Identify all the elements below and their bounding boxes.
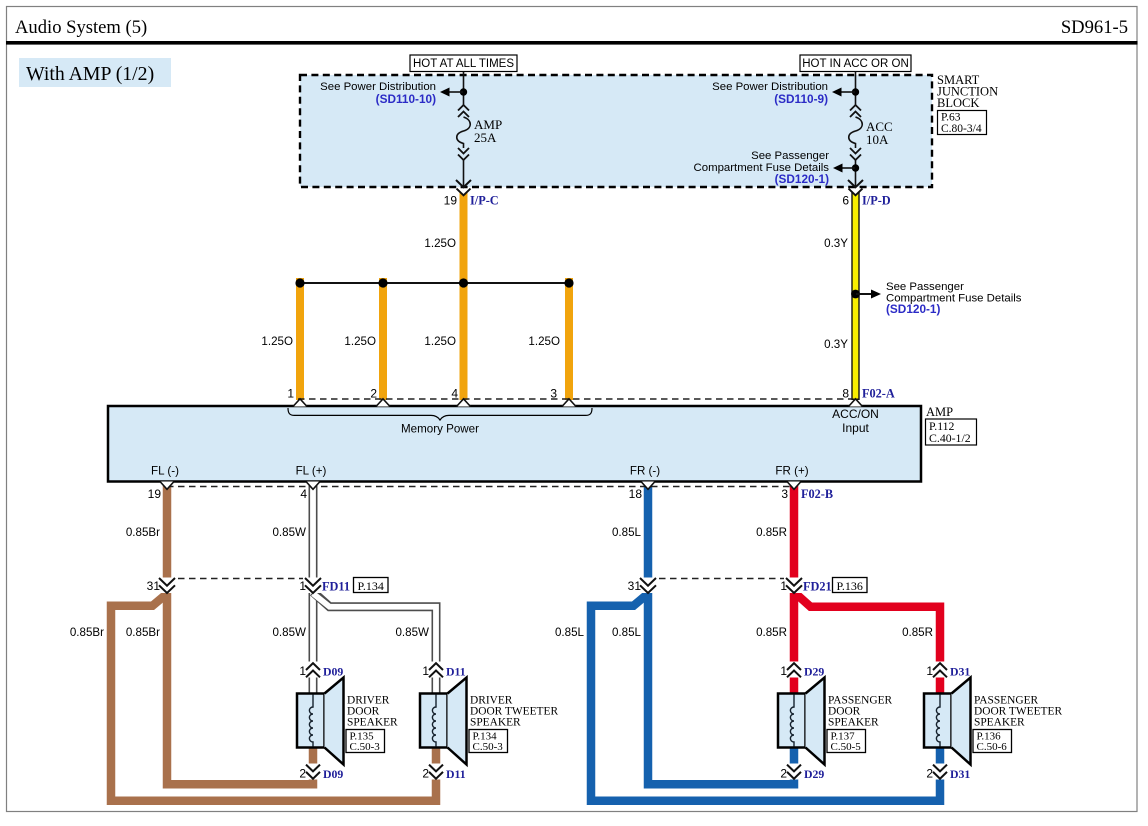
svg-text:(SD120-1): (SD120-1) xyxy=(886,302,940,316)
svg-text:FL (+): FL (+) xyxy=(296,465,327,478)
svg-text:P.134: P.134 xyxy=(358,579,384,593)
svg-text:0.85Br: 0.85Br xyxy=(70,626,104,639)
connector ref box P.134 (FD11) xyxy=(354,578,389,594)
connector ref box P.134 C.50-3 (D11) xyxy=(469,730,508,754)
speaker U4 passenger door tweeter speaker xyxy=(924,678,971,765)
svg-text:18: 18 xyxy=(629,487,643,501)
svg-text:FR (-): FR (-) xyxy=(630,465,660,478)
connector dashed row AMP top xyxy=(298,398,852,400)
svg-text:19: 19 xyxy=(148,487,162,501)
svg-text:6: 6 xyxy=(842,194,849,208)
svg-text:1: 1 xyxy=(422,664,429,678)
pin number 1 and FD11 xyxy=(299,579,350,594)
connector chevrons D29 pin2 xyxy=(784,764,804,780)
svg-text:F02-A: F02-A xyxy=(862,387,895,401)
wire FL(+) white branch to tweeter xyxy=(313,592,436,694)
svg-text:1.25O: 1.25O xyxy=(261,335,293,348)
svg-text:P.136: P.136 xyxy=(837,579,863,593)
svg-text:Input: Input xyxy=(842,421,869,435)
AMP unit box xyxy=(108,406,921,482)
svg-text:0.85W: 0.85W xyxy=(395,626,429,639)
pin tent 4 AMP bottom xyxy=(306,482,320,490)
junction dot bus 3 xyxy=(564,278,573,287)
svg-text:8: 8 xyxy=(842,387,849,401)
connector chevrons D31 pin1 xyxy=(930,662,950,678)
fuse AMP 25A xyxy=(457,96,502,161)
junction dot bus 4 xyxy=(459,278,468,287)
wire FL(-) brown branch to tweeter xyxy=(111,594,436,801)
svg-text:FR (+): FR (+) xyxy=(775,465,808,478)
svg-text:D31: D31 xyxy=(950,665,970,679)
svg-text:10A: 10A xyxy=(866,132,889,147)
svg-text:(SD110-10): (SD110-10) xyxy=(376,92,436,106)
svg-text:3: 3 xyxy=(781,487,788,501)
pin tent 3 AMP bottom xyxy=(787,482,801,490)
svg-text:2: 2 xyxy=(370,387,377,401)
AMP connector box P.112 C.40-1/2 xyxy=(926,419,977,445)
svg-text:With AMP (1/2): With AMP (1/2) xyxy=(26,63,154,85)
pin tent 8 on AMP top xyxy=(849,399,863,407)
pin tent 1 on AMP top xyxy=(293,399,307,407)
svg-text:C.50-3: C.50-3 xyxy=(350,741,381,753)
pin tent 2 on AMP top xyxy=(376,399,390,407)
label ACC/ON Input xyxy=(832,407,879,435)
svg-text:SPEAKER: SPEAKER xyxy=(974,716,1025,728)
wire FL(+) white main xyxy=(309,482,318,694)
connector chevrons pin31 left xyxy=(157,578,177,594)
junction dot on yellow wire xyxy=(851,290,860,299)
svg-text:C.50-6: C.50-6 xyxy=(977,741,1008,753)
label driver door speaker xyxy=(347,695,398,729)
wire FL(-) brown main xyxy=(167,482,313,784)
connector ref box P.135 C.50-3 (D09) xyxy=(346,730,385,754)
svg-text:1.25O: 1.25O xyxy=(424,335,456,348)
svg-text:FD21: FD21 xyxy=(803,580,832,594)
wire FR(-) blue branch to tweeter xyxy=(591,594,940,801)
label passenger door speaker xyxy=(828,695,893,729)
pin number 3 and F02-B xyxy=(781,487,833,501)
svg-text:2: 2 xyxy=(299,767,306,781)
speaker U1 driver door speaker xyxy=(297,678,344,765)
svg-text:HOT IN ACC OR ON: HOT IN ACC OR ON xyxy=(802,58,909,70)
junction dot A (battery feed) xyxy=(460,88,467,95)
svg-text:D09: D09 xyxy=(323,767,343,781)
wire stub from HOT AT ALL TIMES into block xyxy=(463,72,465,90)
svg-text:C.80-3/4: C.80-3/4 xyxy=(941,123,982,135)
svg-text:See Passenger: See Passenger xyxy=(751,150,829,162)
connector chevrons pin1 FD21 xyxy=(784,578,804,594)
svg-text:F02-B: F02-B xyxy=(801,487,833,501)
connector dashed row AMP bottom xyxy=(167,486,792,488)
memory power bus wire xyxy=(300,282,569,284)
pin tent 18 AMP bottom xyxy=(641,482,655,490)
svg-text:AMP: AMP xyxy=(926,405,953,419)
svg-text:31: 31 xyxy=(147,579,161,593)
pin 2 label D11 xyxy=(422,767,465,782)
connector chevrons D09 pin1 xyxy=(303,662,323,678)
junction dot C (fuse details tap) xyxy=(852,164,859,171)
wire stub from HOT IN ACC OR ON into block xyxy=(855,72,857,90)
speaker U3 passenger door speaker xyxy=(778,678,825,765)
svg-text:0.85W: 0.85W xyxy=(272,626,306,639)
pin 1 label D29 xyxy=(780,664,824,679)
svg-text:0.3Y: 0.3Y xyxy=(824,237,848,250)
subtitle With AMP (1/2) xyxy=(19,58,171,87)
svg-text:0.85L: 0.85L xyxy=(612,526,642,539)
header separator line xyxy=(6,41,1138,45)
speaker U2 driver door tweeter speaker xyxy=(420,678,467,765)
wire I/P-D yellow 0.3Y main vertical xyxy=(851,189,859,400)
note See Power Distribution (SD110-10) xyxy=(320,81,436,106)
connector notch I/P-C at block exit xyxy=(456,189,472,196)
fuse ACC 10A xyxy=(849,96,893,161)
svg-text:31: 31 xyxy=(628,579,642,593)
pin tent 3 on AMP top xyxy=(562,399,576,407)
svg-text:25A: 25A xyxy=(474,130,497,145)
label driver door tweeter speaker xyxy=(470,695,558,729)
svg-text:SPEAKER: SPEAKER xyxy=(470,716,521,728)
connector chevrons D29 pin1 xyxy=(784,662,804,678)
svg-text:D09: D09 xyxy=(323,665,343,679)
smart junction block label xyxy=(937,73,998,110)
brace Memory Power xyxy=(288,408,592,420)
wire segment to block exit xyxy=(463,160,465,186)
note See Passenger Compartment Fuse Details (SD120-1) mid xyxy=(886,281,1022,316)
svg-text:D11: D11 xyxy=(446,767,466,781)
arrow to See Power Distribution (right) xyxy=(832,88,855,97)
svg-text:1: 1 xyxy=(780,579,787,593)
svg-text:3: 3 xyxy=(550,387,557,401)
connector chevrons D11 pin1 xyxy=(426,662,446,678)
svg-text:D29: D29 xyxy=(804,665,824,679)
label passenger door tweeter speaker xyxy=(974,695,1062,729)
connector chevrons pin1 FD11 xyxy=(303,578,323,594)
svg-text:I/P-C: I/P-C xyxy=(470,194,499,208)
pin 1 label D11 xyxy=(422,664,465,679)
wire segment to junction dot C xyxy=(855,160,857,186)
smart junction block box xyxy=(300,75,932,187)
svg-text:SPEAKER: SPEAKER xyxy=(347,716,398,728)
connector dashed row FD11 xyxy=(167,578,313,580)
connector chevrons pin31 right xyxy=(638,578,658,594)
label HOT AT ALL TIMES xyxy=(410,55,517,72)
svg-text:0.85R: 0.85R xyxy=(902,626,933,639)
svg-text:1: 1 xyxy=(926,664,933,678)
svg-text:D29: D29 xyxy=(804,767,824,781)
junction dot bus 1 xyxy=(295,278,304,287)
svg-text:1: 1 xyxy=(287,387,294,401)
pin 2 label D31 xyxy=(926,767,970,782)
junction dot bus 2 xyxy=(378,278,387,287)
label HOT IN ACC OR ON xyxy=(800,55,911,72)
arrow to See Power Distribution (left) xyxy=(440,88,463,97)
svg-text:0.3Y: 0.3Y xyxy=(824,338,848,351)
svg-text:2: 2 xyxy=(780,767,787,781)
svg-text:1.25O: 1.25O xyxy=(344,335,376,348)
connector notch I/P-D at block exit xyxy=(848,189,864,196)
wire I/P-C orange 1.25O main vertical xyxy=(460,189,468,400)
svg-text:0.85W: 0.85W xyxy=(272,526,306,539)
pin tent 19 AMP bottom xyxy=(160,482,174,490)
block exit chevron I/P-C xyxy=(456,180,471,187)
svg-text:FD11: FD11 xyxy=(322,580,350,594)
wire orange branch pin1 xyxy=(296,278,304,400)
svg-text:0.85L: 0.85L xyxy=(612,626,642,639)
svg-text:2: 2 xyxy=(926,767,933,781)
connector ref box P.136 (FD21) xyxy=(833,578,868,594)
svg-text:19: 19 xyxy=(444,194,458,208)
svg-text:0.85R: 0.85R xyxy=(756,526,787,539)
connector dashed row FD21 xyxy=(648,578,794,580)
svg-text:HOT AT ALL TIMES: HOT AT ALL TIMES xyxy=(413,58,514,70)
svg-text:1: 1 xyxy=(299,664,306,678)
svg-text:0.85R: 0.85R xyxy=(756,626,787,639)
svg-text:I/P-D: I/P-D xyxy=(862,194,891,208)
svg-text:D31: D31 xyxy=(950,767,970,781)
svg-text:P.63: P.63 xyxy=(941,112,961,124)
svg-text:ACC/ON: ACC/ON xyxy=(832,407,879,421)
junction dot B (ACC feed) xyxy=(852,88,859,95)
svg-text:1: 1 xyxy=(780,664,787,678)
svg-text:FL (-): FL (-) xyxy=(151,465,179,478)
arrow to See Passenger Compartment Fuse Details (mid) xyxy=(856,290,881,299)
pin 2 label D29 xyxy=(780,767,824,782)
pin 6 label I/P-D xyxy=(842,194,890,208)
note See Power Distribution (SD110-9) xyxy=(712,81,828,106)
connector ref box P.136 C.50-6 (D31) xyxy=(973,730,1012,754)
svg-text:See Passenger: See Passenger xyxy=(886,281,964,293)
svg-text:Memory Power: Memory Power xyxy=(401,423,479,436)
pin tent 4 on AMP top xyxy=(457,399,471,407)
pin number 1 and FD21 xyxy=(780,579,831,594)
block exit chevron I/P-D xyxy=(848,180,863,187)
wire orange branch pin2 xyxy=(379,278,387,400)
pin 1 label D31 xyxy=(926,664,970,679)
svg-text:4: 4 xyxy=(300,487,307,501)
connector chevrons D11 pin2 xyxy=(426,764,446,780)
svg-text:2: 2 xyxy=(422,767,429,781)
svg-text:1: 1 xyxy=(299,579,306,593)
svg-text:1.25O: 1.25O xyxy=(424,237,456,250)
svg-text:0.85L: 0.85L xyxy=(555,626,585,639)
pin 1 label D09 xyxy=(299,664,343,679)
pin number 8 and F02-A xyxy=(842,387,895,401)
svg-text:(SD120-1): (SD120-1) xyxy=(775,172,829,186)
svg-text:C.40-1/2: C.40-1/2 xyxy=(929,431,971,445)
svg-text:(SD110-9): (SD110-9) xyxy=(774,92,828,106)
svg-text:C.50-5: C.50-5 xyxy=(831,741,862,753)
connector chevrons D31 pin2 xyxy=(930,764,950,780)
svg-text:0.85Br: 0.85Br xyxy=(126,626,160,639)
wire orange branch pin3 xyxy=(565,278,573,400)
smart junction block connector box P.63 C.80-3/4 xyxy=(938,111,987,136)
svg-text:C.50-3: C.50-3 xyxy=(473,741,504,753)
pin 2 label D09 xyxy=(299,767,343,782)
svg-text:1.25O: 1.25O xyxy=(528,335,560,348)
svg-text:D11: D11 xyxy=(446,665,466,679)
note See Passenger Compartment Fuse Details (SD120-1) upper xyxy=(694,150,830,186)
svg-text:0.85Br: 0.85Br xyxy=(126,526,160,539)
svg-text:SD961-5: SD961-5 xyxy=(1061,17,1128,38)
svg-text:BLOCK: BLOCK xyxy=(937,96,979,110)
wire FR(+) red main xyxy=(790,482,799,694)
arrow to See Passenger Compartment Fuse Details xyxy=(833,164,855,173)
svg-text:4: 4 xyxy=(451,387,458,401)
svg-text:Audio System (5): Audio System (5) xyxy=(15,17,147,38)
wire FR(+) red branch to tweeter xyxy=(794,592,940,694)
pin 19 label I/P-C xyxy=(444,194,499,208)
connector ref box P.137 C.50-5 (D29) xyxy=(827,730,866,754)
wire FR(-) blue main xyxy=(648,482,794,784)
svg-text:SPEAKER: SPEAKER xyxy=(828,716,879,728)
connector chevrons D09 pin2 xyxy=(303,764,323,780)
